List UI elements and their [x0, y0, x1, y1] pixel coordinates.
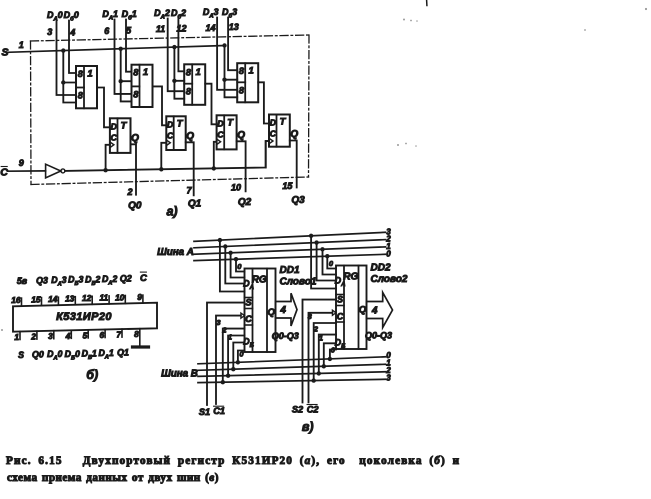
svg-text:8: 8	[186, 87, 191, 97]
svg-text:8: 8	[78, 69, 83, 79]
svg-text:Q0-Q3: Q0-Q3	[272, 331, 299, 341]
junction dot bus B DD2 wire 3	[312, 378, 316, 382]
wire C branch cell 1	[161, 143, 166, 170]
svg-text:8: 8	[133, 89, 138, 99]
gate cluster divider horizontal cell 1	[132, 85, 140, 87]
inverter triangle	[46, 164, 61, 178]
svg-text:Q: Q	[131, 133, 139, 144]
svg-text:Q3: Q3	[36, 276, 48, 286]
junction dot C line cell 1	[159, 167, 163, 171]
bus A line 3	[194, 232, 386, 241]
svg-text:Рис. 6.15 Двухпортовый регис: Рис. 6.15 Двухпортовый регистр К531ИР20 …	[6, 455, 460, 467]
svg-text:13: 13	[65, 294, 75, 304]
svg-text:DA0: DA0	[47, 10, 63, 23]
svg-text:T: T	[280, 117, 287, 128]
pinout bottom pin 7 stub	[121, 329, 123, 337]
pinout bottom pin 3 stub	[53, 331, 55, 339]
pinout top label C-bar	[140, 272, 147, 284]
wire S branch lower cell 3	[225, 80, 238, 98]
junction dot S branch cell 0	[61, 80, 65, 84]
wire Q output cell 2	[237, 141, 246, 191]
svg-text:C: C	[167, 130, 174, 140]
svg-text:4: 4	[279, 305, 286, 316]
svg-text:6: 6	[104, 26, 110, 36]
svg-text:1: 1	[19, 40, 24, 50]
wire Q output cell 1	[186, 142, 194, 195]
svg-text:C: C	[270, 129, 277, 139]
svg-text:9: 9	[137, 292, 142, 302]
svg-text:1: 1	[87, 69, 92, 80]
bus B line 2	[198, 372, 386, 377]
register DD1 body	[245, 269, 276, 353]
wire S branch lower cell 2	[174, 81, 184, 99]
junction dot bus A DD1 drop 2	[223, 244, 227, 248]
gate cluster divider horizontal cell 0	[76, 87, 84, 89]
svg-text:C: C	[140, 273, 147, 284]
pinout top pin 16 stub	[21, 298, 23, 306]
svg-text:Шина В: Шина В	[161, 369, 198, 380]
wire bus B line 0 to DD2 DB input	[330, 350, 336, 359]
svg-text:4: 4	[65, 331, 71, 341]
junction dot bus A DD1 drop 3	[218, 238, 222, 242]
svg-text:3: 3	[216, 318, 221, 327]
svg-text:15: 15	[282, 181, 293, 191]
input C-bar label	[0, 167, 8, 179]
wire D_B3 vertical	[228, 18, 237, 71]
svg-text:C: C	[0, 167, 8, 179]
wire OR output to FF D input cell 1	[153, 86, 167, 125]
junction dot C line cell 0	[103, 168, 107, 172]
svg-text:2: 2	[126, 187, 132, 197]
pinout top pin 9 stub	[142, 295, 144, 303]
pinout top pin 15 stub	[41, 298, 43, 306]
gate cluster divider vertical cell 0	[83, 66, 85, 108]
wire S branch lower cell 1	[121, 81, 132, 101]
ground bar pin 8	[133, 345, 149, 348]
flip-flop clock chevron cell 3	[269, 138, 273, 144]
wire DD1 S input	[207, 303, 245, 405]
bus B line 1	[198, 364, 386, 370]
register DD2 body	[336, 266, 367, 350]
flip-flop T cell 0 outline	[110, 118, 131, 153]
svg-text:10: 10	[115, 292, 125, 302]
svg-text:8: 8	[134, 329, 139, 339]
wire OR output to FF D input cell 2	[205, 84, 216, 125]
svg-text:C: C	[217, 129, 224, 139]
wire bus B line 3 to DD2 DB input	[314, 323, 336, 381]
wire C branch cell 2	[214, 142, 217, 169]
pinout bottom pin 5 stub	[87, 330, 89, 338]
IC boundary dash-dot border right edge	[308, 35, 311, 177]
svg-text:DБ3: DБ3	[68, 275, 83, 288]
svg-text:S2: S2	[292, 405, 304, 415]
flip-flop clock chevron cell 2	[217, 139, 221, 145]
svg-text:Слово2: Слово2	[371, 274, 408, 285]
svg-text:D: D	[270, 118, 276, 128]
svg-text:S: S	[337, 295, 343, 305]
wire bus B line 0 to DD1 DB input	[238, 351, 245, 363]
bus B line 3	[198, 379, 386, 382]
svg-text:С2: С2	[307, 404, 320, 414]
pinout top pin 11 stub	[108, 296, 110, 304]
svg-text:DA0: DA0	[47, 349, 62, 362]
svg-text:0: 0	[329, 259, 334, 268]
wire S branch cell 2	[174, 47, 184, 81]
DD1 output arrow	[276, 293, 298, 326]
svg-text:1: 1	[249, 66, 254, 77]
svg-text:Q: Q	[290, 129, 298, 140]
svg-text:DD2: DD2	[371, 263, 391, 274]
wire bus A line 1 to DD2 DA input	[323, 249, 337, 274]
svg-text:0: 0	[237, 262, 242, 271]
wire bus B line 2 to DD1 DB input	[228, 336, 244, 376]
junction dot bus B DD2 wire 1	[322, 364, 326, 368]
wire D_B1 vertical	[126, 20, 132, 72]
svg-text:Q: Q	[186, 131, 194, 142]
svg-text:3: 3	[47, 27, 52, 37]
pinout top pin 14 stub	[57, 297, 59, 305]
flip-flop divider cell 0	[117, 118, 119, 153]
gate cluster divider horizontal cell 2	[184, 83, 192, 85]
svg-text:RG: RG	[252, 275, 267, 286]
svg-text:9: 9	[19, 158, 24, 168]
svg-text:T: T	[121, 120, 128, 131]
svg-text:1: 1	[14, 332, 19, 342]
wire C branch cell 0	[106, 145, 110, 170]
wire DD2 S input	[303, 300, 337, 403]
wire D_A3 vertical	[217, 18, 237, 90]
pinout top pin 12 stub	[91, 296, 93, 304]
flip-flop divider cell 3	[276, 115, 278, 147]
svg-text:8: 8	[133, 68, 138, 78]
wire DD2 C input	[309, 313, 333, 403]
svg-text:6: 6	[99, 330, 104, 340]
svg-text:0: 0	[386, 249, 391, 258]
wire OR output to FF D input cell 3	[258, 82, 269, 123]
wire Q output cell 3	[290, 141, 297, 188]
wire bus B line 3 to DD1 DB input	[223, 329, 245, 383]
register DD2 strip section lines	[336, 294, 344, 296]
wire bus B line 1 to DD1 DB input	[233, 343, 244, 370]
gate cluster divider vertical cell 1	[139, 65, 141, 107]
pinout top pin 13 stub	[74, 297, 76, 305]
pinout body K531IR20	[13, 303, 157, 332]
wire C-bar line to flip-flops	[65, 141, 269, 171]
junction dot bus A DD2 drop 2	[314, 240, 318, 244]
bus B line 0	[198, 357, 386, 364]
wire bus A line 0 to DD1 DA input	[236, 259, 245, 271]
junction dot bus B DD1 wire 2	[226, 374, 230, 378]
register DD1 strip section lines	[245, 297, 253, 299]
svg-text:T: T	[227, 117, 234, 128]
svg-text:Q0: Q0	[128, 201, 142, 212]
svg-text:3: 3	[48, 331, 53, 341]
IC boundary dash-dot border bottom edge	[31, 177, 309, 185]
svg-text:Q0: Q0	[32, 350, 44, 360]
svg-text:4: 4	[69, 28, 75, 38]
AND-OR gate cluster cell 0 outline	[76, 66, 97, 108]
scan specks	[1, 8, 647, 331]
svg-text:14: 14	[205, 23, 215, 33]
pinout bottom pin 4 stub	[70, 330, 72, 338]
flip-flop divider cell 1	[173, 116, 175, 150]
gate cluster divider horizontal cell 3	[237, 81, 245, 83]
svg-text:DA1: DA1	[102, 9, 118, 22]
wire D_A0 vertical	[57, 21, 77, 96]
gate cluster divider vertical cell 2	[191, 64, 193, 105]
wire S branch cell 1	[121, 49, 132, 81]
junction dot S line cell 1	[119, 47, 123, 51]
wire bus A line 3 to DD1 DA input	[220, 240, 245, 291]
DD2 C input chevron	[332, 310, 336, 315]
svg-text:а): а)	[166, 205, 177, 219]
flip-flop clock chevron cell 1	[166, 140, 170, 146]
svg-text:C: C	[111, 132, 118, 142]
svg-text:11: 11	[156, 24, 165, 34]
wire DD1 C input	[216, 316, 241, 404]
junction dot bus A DD2 drop 1	[320, 247, 324, 251]
junction dot bus A DD1 drop 1	[228, 251, 232, 255]
svg-text:S: S	[245, 298, 251, 308]
junction dot S branch cell 3	[222, 78, 226, 82]
svg-text:12: 12	[82, 293, 92, 303]
svg-text:Dб0: Dб0	[64, 10, 79, 23]
wire S branch cell 3	[225, 46, 238, 80]
svg-text:15: 15	[31, 294, 41, 304]
wire bus A line 3 to DD2 DA input	[311, 236, 336, 289]
junction dot bus A DD1 drop 0	[234, 257, 238, 261]
bus A line 2	[194, 240, 386, 248]
svg-text:16: 16	[11, 295, 21, 305]
wire bus B line 1 to DD2 DB input	[324, 343, 336, 366]
wire bus A line 2 to DD2 DA input	[317, 243, 336, 281]
wire D_B0 vertical	[69, 21, 76, 74]
DD2 output arrow	[367, 293, 393, 328]
svg-text:4: 4	[371, 306, 378, 317]
IC boundary dash-dot border top edge (part a)	[31, 35, 310, 41]
svg-text:2: 2	[30, 332, 36, 342]
svg-text:С1: С1	[213, 406, 225, 416]
svg-text:Q: Q	[359, 304, 367, 315]
junction dot S branch cell 2	[172, 79, 176, 83]
junction dot bus B DD1 wire 3	[221, 380, 225, 384]
flip-flop T cell 1 outline	[166, 116, 185, 150]
svg-text:Q3: Q3	[291, 195, 305, 206]
wire OR output to FF D input cell 0	[97, 88, 110, 128]
svg-text:1: 1	[196, 67, 201, 78]
svg-text:Шина А: Шина А	[157, 247, 194, 258]
svg-text:Q: Q	[237, 130, 245, 141]
register DD1 right strip divider	[266, 269, 268, 353]
svg-text:7: 7	[116, 330, 121, 340]
svg-text:8: 8	[239, 85, 244, 95]
pinout bottom pin 2 stub	[36, 331, 38, 339]
IC boundary dash-dot border left edge	[30, 41, 33, 185]
junction dot S line cell 0	[61, 48, 65, 52]
scan speck top	[426, 0, 428, 6]
junction dot S line cell 2	[172, 45, 176, 49]
svg-text:S1: S1	[199, 407, 210, 417]
svg-text:D: D	[217, 118, 223, 128]
wire S branch lower cell 0	[63, 83, 76, 103]
junction dot bus B DD1 wire 1	[231, 367, 235, 371]
input label С2 with overbar	[307, 404, 320, 414]
wire bus B line 2 to DD2 DB input	[319, 335, 336, 374]
svg-text:C: C	[245, 314, 252, 324]
svg-text:DA3: DA3	[51, 275, 66, 288]
svg-text:S: S	[18, 350, 24, 360]
svg-text:8: 8	[239, 66, 244, 76]
svg-text:Q1: Q1	[188, 198, 202, 209]
wire bus A line 2 to DD1 DA input	[225, 247, 244, 284]
svg-text:б): б)	[86, 368, 98, 382]
AND-OR gate cluster cell 2 outline	[184, 64, 205, 105]
bus A line 1	[194, 247, 386, 254]
junction dot S branch cell 1	[119, 79, 123, 83]
svg-text:Dб1: Dб1	[122, 9, 137, 22]
register DD2 left strip divider	[343, 266, 345, 350]
svg-text:Q2: Q2	[120, 274, 132, 284]
wire D_B2 vertical	[178, 19, 184, 72]
flip-flop T cell 3 outline	[269, 115, 290, 147]
svg-text:в): в)	[302, 420, 314, 434]
svg-text:13: 13	[229, 22, 239, 32]
pinout bottom pin 1 stub	[19, 332, 21, 340]
svg-text:3: 3	[386, 373, 391, 382]
svg-text:10: 10	[231, 183, 241, 193]
pinout bottom pin 6 stub	[104, 330, 106, 338]
svg-text:14: 14	[48, 294, 58, 304]
svg-text:DD1: DD1	[280, 265, 300, 276]
svg-text:Q1: Q1	[117, 348, 129, 358]
svg-text:1: 1	[143, 67, 148, 78]
svg-text:C: C	[337, 311, 344, 321]
DD1 C input chevron	[241, 313, 245, 318]
svg-text:схема приема данных от двух ши: схема приема данных от двух шин (в)	[7, 472, 219, 484]
svg-text:DA2: DA2	[102, 274, 117, 287]
register DD2 right strip divider	[358, 266, 360, 350]
flip-flop clock chevron cell 0	[110, 142, 114, 148]
wire S horizontal line	[8, 46, 225, 53]
input label С1 with overbar	[213, 406, 225, 416]
wire S branch cell 0	[63, 51, 76, 83]
inverter bubble	[61, 169, 65, 173]
svg-text:5: 5	[126, 25, 132, 35]
wire D_A2 vertical	[168, 19, 185, 92]
svg-text:Q0-Q3: Q0-Q3	[365, 331, 392, 341]
AND-OR gate cluster cell 3 outline	[237, 63, 258, 102]
wire D_A1 vertical	[115, 20, 132, 94]
svg-text:Q2: Q2	[238, 197, 252, 208]
flip-flop T cell 2 outline	[217, 115, 237, 149]
junction dot bus B DD2 wire 0	[328, 357, 332, 361]
svg-text:К531ИР20: К531ИР20	[56, 311, 112, 323]
svg-text:DA1: DA1	[98, 348, 113, 361]
svg-text:D: D	[111, 121, 117, 131]
svg-text:DБ0: DБ0	[65, 349, 80, 362]
wire C branch cell 3	[266, 141, 269, 168]
wire Q output cell 0	[131, 144, 137, 194]
svg-text:RG: RG	[343, 272, 358, 283]
svg-text:DБ2: DБ2	[85, 274, 100, 287]
wire bus A line 0 to DD2 DA input	[327, 256, 336, 268]
flip-flop divider cell 2	[223, 115, 225, 149]
wire C-bar input to inverter	[8, 170, 46, 172]
junction dot S line cell 3	[222, 43, 226, 47]
svg-text:11: 11	[99, 293, 108, 303]
junction dot C line cell 2	[212, 166, 216, 170]
junction dot bus A DD2 drop 0	[325, 254, 329, 258]
svg-text:7: 7	[186, 186, 192, 196]
svg-text:T: T	[177, 118, 184, 129]
wire bus A line 1 to DD1 DA input	[231, 253, 245, 278]
register DD1 left strip divider	[252, 269, 254, 353]
AND-OR gate cluster cell 1 outline	[132, 65, 153, 107]
junction dot bus B DD1 wire 0	[236, 360, 240, 364]
junction dot bus A DD2 drop 3	[309, 234, 313, 238]
svg-text:Q: Q	[268, 307, 276, 318]
svg-text:Dб3: Dб3	[222, 7, 237, 20]
gate cluster divider vertical cell 3	[244, 63, 246, 102]
svg-text:D: D	[167, 119, 173, 129]
pinout top pin 10 stub	[124, 296, 126, 304]
svg-text:8: 8	[78, 91, 83, 101]
pinout bottom pin 8 stub	[139, 329, 141, 347]
junction dot bus B DD2 wire 2	[317, 371, 321, 375]
bus A line 0	[194, 254, 386, 260]
svg-text:5: 5	[83, 330, 88, 340]
svg-text:8: 8	[186, 67, 191, 77]
svg-text:5в: 5в	[17, 276, 28, 286]
svg-text:DБ1: DБ1	[82, 348, 97, 361]
